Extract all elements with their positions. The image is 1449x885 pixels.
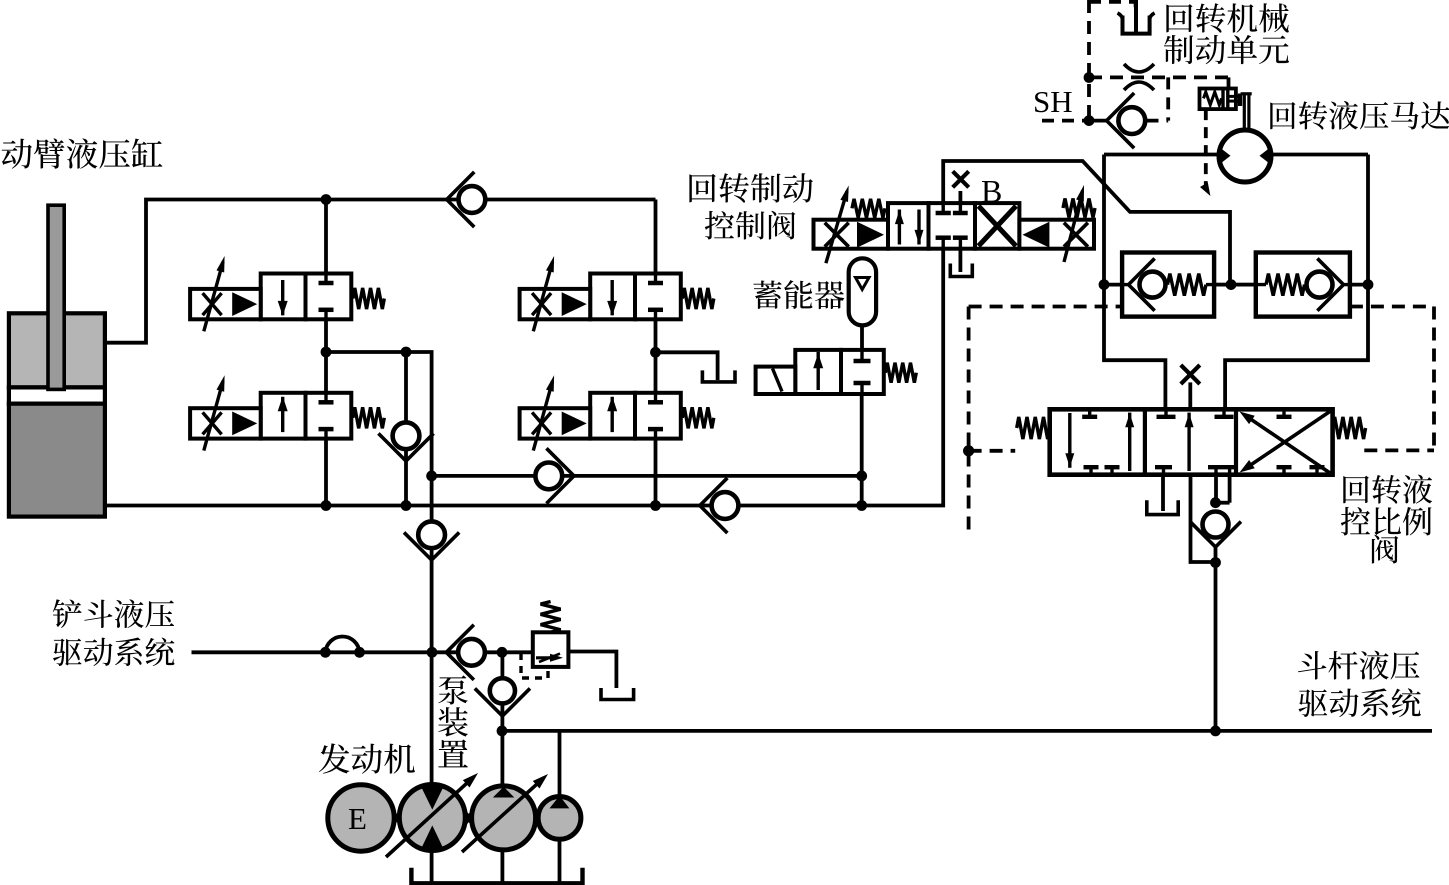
junction node (502,652.3) — [497, 647, 508, 658]
svg-text:E: E — [348, 801, 367, 836]
label boom cylinder 动臂液压缸 — [2, 139, 32, 169]
wire drain branch right valves — [656, 352, 718, 380]
check valve below prop valve — [1203, 512, 1229, 538]
accumulator valve spring — [885, 363, 916, 383]
brake valve right solenoid arrow — [1064, 191, 1082, 262]
prop valve drain stub — [1161, 475, 1165, 511]
counterbalance line — [1104, 283, 1368, 287]
boom cylinder lower chamber — [9, 404, 105, 517]
wire brake valve blocked stub — [959, 191, 963, 203]
prop valve tank-path down — [1191, 475, 1216, 562]
dashed pilot main vertical SH — [1087, 0, 1091, 121]
junction node (1215.5,730.9) — [1210, 726, 1221, 737]
label engine 发动机 — [319, 743, 350, 773]
wire brake valve drain stub — [959, 249, 963, 272]
mechanical brake unit symbol — [1123, 16, 1150, 34]
junction node (502,730.9) — [497, 726, 508, 737]
brake valve left solenoid arrow — [826, 191, 847, 263]
check valve pump2 riser — [490, 678, 515, 703]
junction node (861.7,505.5) — [856, 500, 867, 511]
junction node (1368,284.6) — [1363, 279, 1374, 290]
brake valve right spring — [1063, 199, 1095, 218]
swing hydraulic motor — [1219, 130, 1271, 182]
dashed drop to brake actuator — [1227, 77, 1231, 88]
pump2 vertical — [500, 652, 504, 884]
wire from cylinder rod side to top line — [104, 200, 656, 343]
label swing brake line2 控制阀 — [705, 211, 734, 240]
prop valve box2 internals — [1164, 409, 1167, 417]
junction node (1231,284.6) — [1226, 279, 1237, 290]
label arm system line2 驱动系统 — [1299, 689, 1328, 717]
pump1 vertical — [430, 652, 434, 883]
accumulator charge valve — [795, 350, 841, 394]
junction node (326,505.5) — [321, 500, 332, 511]
wire vertical through right valve pair — [654, 200, 658, 506]
tank symbol brake valve drain — [950, 264, 972, 277]
pilot arrowhead at motor — [1200, 182, 1210, 196]
brake valve left spring — [852, 199, 885, 218]
label swing motor 回转液压马达 — [1270, 102, 1295, 129]
check valve SH line — [1118, 107, 1145, 134]
engine circle — [328, 785, 394, 851]
wire check valve branch x=406 — [404, 352, 408, 506]
accumulator — [849, 258, 876, 325]
relief valve spring — [541, 602, 561, 633]
prop valve port stubs to check valve — [1214, 475, 1218, 503]
label brake unit line1 回转机械 — [1166, 4, 1192, 32]
label arm system line1 斗杆液压 — [1298, 651, 1326, 680]
right counterbalance valve — [1256, 253, 1350, 317]
wire accumulator to valve — [860, 323, 864, 351]
relief valve dashed pilot — [521, 653, 548, 678]
pump1 variable displacement — [399, 785, 465, 851]
dashed pilot to prop valve right spring — [1364, 448, 1434, 452]
dashed check valve to riser — [1147, 119, 1169, 123]
dashed SH stub — [1042, 119, 1089, 123]
boom cylinder barrel upper chamber — [9, 313, 105, 387]
motor block top line — [1104, 153, 1368, 157]
label accumulator 蓄能器 — [753, 280, 781, 308]
junction node (326,199.5) — [321, 194, 332, 205]
restrictor on brake pilot line — [1124, 64, 1154, 72]
junction node (1089,77.5) — [1084, 72, 1095, 83]
svg-text:SH: SH — [1033, 84, 1073, 119]
tank symbol right valves drain — [702, 370, 735, 382]
label bucket system line1 铲斗液压 — [53, 599, 82, 628]
blocked port X above brake valve — [953, 171, 969, 187]
pump3 fixed — [538, 797, 581, 840]
check valve x=432 to pump line — [418, 521, 445, 548]
dashed pilot junction dot — [963, 445, 974, 456]
bucket line hop arc — [325, 637, 359, 653]
junction node (655.5,352.3) — [650, 347, 661, 358]
dashed pilot right counterbalance — [1350, 305, 1434, 309]
dashed pilot vertical x=969 — [967, 307, 971, 534]
check valve x=406 branch — [393, 422, 420, 449]
relief valve — [533, 632, 569, 667]
bottom long line from cylinder — [104, 249, 943, 506]
junction node (406,352) — [401, 347, 412, 358]
brake valve box1 arrows — [898, 210, 901, 245]
dashed pilot to restrictor line — [1089, 76, 1231, 80]
label bucket system line2 驱动系统 — [53, 639, 82, 666]
swing pilot proportional valve body — [1050, 409, 1333, 474]
engine-pump coupling — [394, 810, 401, 826]
junction node (1215.5,562.5) — [1210, 557, 1221, 568]
pump suction bracket — [411, 868, 582, 884]
wire segment through valve — [261, 393, 306, 439]
prop valve box1 internals — [1068, 413, 1071, 468]
check valve on bucket line — [458, 639, 485, 666]
wire SH node to check valve — [1089, 119, 1108, 123]
junction node (861.7,475.9) — [856, 471, 867, 482]
label prop valve line1 回转液 — [1343, 476, 1369, 504]
motor shaft — [1241, 92, 1252, 95]
long line to arm drive system — [502, 729, 1432, 733]
junction node (325.4,652.3) — [320, 647, 331, 658]
label brake unit line2 制动单元 — [1164, 35, 1193, 64]
junction node (432,652.3) — [427, 647, 438, 658]
left counterbalance valve — [1122, 253, 1214, 317]
dashed brake unit box — [1089, 2, 1136, 13]
wire accumulator valve down — [860, 394, 864, 506]
check valve on y=476 line — [535, 463, 562, 490]
wire segment through valve — [261, 274, 306, 320]
blocked port X above prop valve — [1181, 365, 1200, 384]
wire node row y=352 to corner — [326, 352, 432, 652]
prop valve blocked stub — [1188, 382, 1192, 409]
prop valve right spring — [1333, 417, 1366, 439]
dashed pilot from brake actuator down — [1204, 109, 1208, 188]
brake valve box2 blocked ports — [942, 203, 945, 211]
dashed pilot vertical x=1434 — [1432, 307, 1436, 451]
svg-text:B: B — [981, 173, 1002, 209]
tank symbol prop valve drain — [1147, 500, 1178, 514]
junction node (406,505.5) — [401, 500, 412, 511]
junction node (1089,120.6) — [1084, 115, 1095, 126]
dashed riser to restrictor line — [1166, 77, 1170, 120]
junction node (1104,284.6) — [1099, 279, 1110, 290]
wire brake valve top port up-left to motor block — [943, 161, 1230, 285]
boom cylinder piston band — [9, 387, 105, 403]
junction node (655.5,505.5) — [650, 500, 661, 511]
junction node (1215.5,502.7) — [1210, 497, 1221, 508]
wire check valve down to arm line — [1214, 547, 1218, 731]
prop valve left spring — [1017, 417, 1050, 439]
boom cylinder rod — [48, 205, 64, 389]
junction node (431.6,475.9) — [426, 471, 437, 482]
label pump unit 泵装置 — [438, 675, 467, 704]
bucket line — [192, 650, 534, 654]
relief valve outlet to tank — [568, 652, 616, 689]
pump3 vertical — [558, 731, 562, 883]
pump2 variable displacement — [472, 786, 536, 850]
motor block left edge — [1104, 155, 1165, 410]
label prop valve line2 控比例 — [1341, 507, 1370, 536]
label prop valve line3 阀 — [1372, 535, 1399, 564]
wire y=476 line to accumulator valve drop — [432, 474, 862, 478]
pump1-pump2 coupling — [465, 809, 473, 827]
dashed pilot to prop valve left spring — [969, 449, 1016, 453]
dashed pilot left counterbalance — [969, 305, 1123, 309]
swing brake control valve body — [888, 203, 929, 249]
label swing brake line1 回转制动 — [689, 174, 715, 202]
junction node (326,352) — [321, 347, 332, 358]
wire segment through valve — [590, 393, 635, 439]
tank symbol relief valve drain — [601, 688, 634, 700]
check valve on bottom line — [712, 492, 739, 519]
wire vertical through left valve pair — [324, 200, 328, 506]
wire segment through valve — [590, 274, 635, 320]
junction node (359.5,652.3) — [354, 647, 365, 658]
swing brake actuator — [1200, 89, 1236, 110]
brake valve box3 X — [979, 206, 1017, 246]
check valve on top line — [459, 186, 486, 213]
prop valve box3 X with arrows — [1244, 415, 1330, 473]
motor block right edge — [1225, 155, 1368, 410]
